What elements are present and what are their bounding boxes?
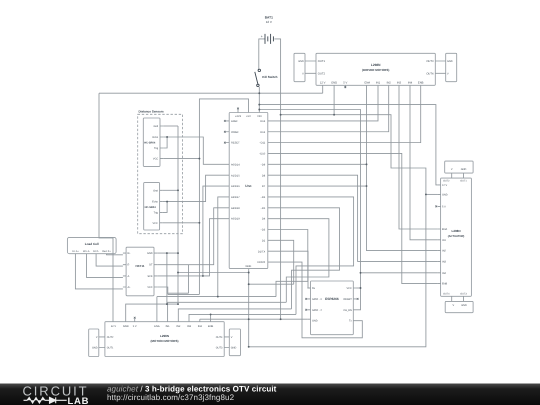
svg-text:BAT1: BAT1 [265,16,273,20]
wire D7 row tie [271,185,367,187]
svg-text:ENB: ENB [208,325,214,328]
battery BAT1 [265,34,273,44]
wire HX711 SCK to A5 [157,219,226,276]
svg-text:GND: GND [123,325,129,328]
wire actuator GND stub [426,193,438,195]
svg-text:HX711: HX711 [135,264,144,268]
ultrasonic sensor HC-SR04 #1 [143,118,160,166]
svg-text:RESET: RESET [343,298,352,301]
svg-text:VCC: VCC [347,287,352,290]
wire ESP CH_EN tie [357,288,361,310]
no-connect GPIO-0 [305,298,307,300]
svg-text:GND: GND [231,347,237,350]
wire D3 to motion ENA link [271,230,308,297]
wire sensor1 stubs [160,126,163,159]
svg-text:5 V: 5 V [442,206,446,209]
junction (178,272.5) [177,272,179,274]
svg-text:VIN: VIN [257,115,261,118]
svg-text:D1/TX: D1/TX [258,250,266,253]
junction (217.8,296.6) [217,296,219,298]
svg-text:A+: A+ [128,286,132,289]
wire driver IN4 riser to actuator IN1 [410,85,437,240]
svg-text:IN1: IN1 [166,325,171,328]
wire esp left stubs [307,288,310,319]
junction (259.3,93.2) [258,92,260,94]
wire D5 to motion IN2 link [271,208,340,309]
svg-text:Uno: Uno [245,184,251,188]
svg-text:Load Cell: Load Cell [85,242,99,246]
svg-text:GND: GND [442,194,448,197]
svg-text:~D6: ~D6 [260,196,265,199]
svg-text:Bl: E-: Bl: E- [93,250,99,253]
svg-text:OUT1: OUT1 [318,60,326,63]
svg-text:AREF: AREF [231,120,238,123]
wire HX711 DT to A4 [157,208,226,265]
junction (248.7,319.2) [248,318,250,320]
wire loadcell A+ wire [75,254,123,289]
wire battery - vertical [274,39,280,319]
svg-text:~D10: ~D10 [259,153,266,156]
footer bar [0,384,540,405]
svg-text:Red: E+: Red: E+ [102,250,111,253]
svg-text:E+: E+ [128,252,132,255]
IC U2 L298N (DRIVER MOTORS) [316,53,435,85]
wire sensor2 VCC row [163,222,200,224]
wire 12V rail B to actuator 12V [259,105,437,185]
wire hx left stubs [123,253,126,287]
wire loadcell A- wire [87,254,123,278]
wire sensor2 Gnd row [163,189,178,191]
svg-text:RESET: RESET [231,142,240,145]
svg-text:~D9: ~D9 [260,163,265,166]
svg-text:OUT2: OUT2 [318,73,326,76]
svg-text:D2: D2 [262,239,266,242]
svg-text:E-: E- [128,264,131,267]
wire D9 row tie [271,163,367,165]
wire actuator left stubs [437,185,440,284]
no-connect GPIO-2 [305,309,307,311]
wire GND drop v1 [166,253,168,304]
svg-text:IN4: IN4 [198,325,203,328]
svg-text:OUT3: OUT3 [216,347,223,350]
junction (360.5,272.8) [360,272,362,274]
svg-text:L298N: L298N [371,63,381,67]
wire driver ENB to D11 [271,85,421,142]
junction (366.5,186.06) [366,185,368,187]
IC U4 L298N (MOTION MOTORS) [105,322,224,357]
wire rail C riser to ESP VCC [259,110,360,289]
wire driver ENA riser to actuator IN2 [367,85,438,250]
wire motion ENA riser [156,297,158,322]
svg-text:HC-SR04: HC-SR04 [145,206,157,209]
junction (259.3,104.6) [258,104,260,106]
wire sensor1 VCC row [163,158,199,160]
svg-text:VCC: VCC [147,286,152,289]
svg-text:L298N: L298N [451,229,460,233]
svg-text:~D5: ~D5 [260,207,265,210]
junction (259.3,109.5) [258,109,260,111]
motion connector M5 [89,329,99,357]
svg-text:IN3: IN3 [442,261,447,264]
wire uno stubs [226,110,271,262]
junction (199.4,158.6) [198,158,200,160]
svg-text:SCK: SCK [147,275,152,278]
svg-text:D4: D4 [262,218,266,221]
svg-text:GND: GND [461,304,467,307]
amplifier HX711 U5 [126,247,154,296]
wire GND bottom loop to driver GND [249,115,426,347]
svg-text:IN2: IN2 [442,250,447,253]
svg-text:OUT2: OUT2 [443,180,450,183]
motor connector M2 [446,53,457,81]
svg-text:HC-SR04: HC-SR04 [144,142,156,145]
svg-text:OUT4: OUT4 [443,293,450,296]
junction (167.1,201.6) [166,201,168,203]
junction (210.6,314.4) [210,313,212,315]
wire loadcell E+ wire [107,254,123,255]
svg-text:ENB: ENB [442,283,447,286]
wire motion IN3 row riser [189,314,296,321]
wire hx right stubs [154,253,157,287]
svg-text:OUT4: OUT4 [216,336,223,339]
svg-text:A0/D14: A0/D14 [231,163,240,166]
group Distance Sensors (dashed) [138,114,183,233]
junction (202.9,275.9) [202,275,204,277]
junction (178,253.1) [177,252,179,254]
wire motion IN1 row riser [168,302,287,321]
junction (167.1,137) [166,136,168,138]
svg-text:D13: D13 [260,120,265,123]
junction (334.1,114.7) [333,114,335,116]
svg-text:CH_EN: CH_EN [343,309,352,312]
junction (166.9,253.1) [166,252,168,254]
ultrasonic sensor HC-SR04 #2 [144,183,160,230]
svg-text:VCC: VCC [153,158,158,161]
svg-text:GND: GND [92,347,98,350]
svg-text:IN3: IN3 [187,325,192,328]
actuator connector M3 [445,161,473,173]
wire sensor2 trig tie [163,202,167,213]
junction (248.7,284.2) [248,283,250,285]
svg-text:VCC: VCC [153,222,158,225]
junction (366.5,164.34) [366,163,368,165]
wire loadcell E- wire [96,254,123,266]
svg-text:Trig: Trig [154,211,159,214]
svg-text:OUT2: OUT2 [107,336,114,339]
wire 12V rail [99,85,323,93]
svg-text:ENB: ENB [418,82,424,85]
svg-text:Echo: Echo [152,201,158,204]
junction (280.6,114.7) [280,114,282,116]
svg-text:OUT3: OUT3 [460,293,467,296]
svg-text:IN4: IN4 [408,82,413,85]
svg-text:5 V: 5 V [343,82,347,85]
no-connect actuator 5V [435,206,437,208]
wire GND cross row [178,272,249,274]
wire actuator out stubs [452,173,464,301]
no-connect ESP RESET [357,298,359,300]
svg-text:D7: D7 [262,185,266,188]
junction (166.9,304.1) [166,303,168,305]
svg-text:ENA: ENA [442,228,447,231]
svg-text:A1/D15: A1/D15 [231,174,240,177]
svg-text:L298N: L298N [160,334,169,338]
logo resistor-diode squiggle [24,397,67,403]
svg-text:OUT4: OUT4 [426,73,434,76]
wire sensor1 trig tie [163,137,167,148]
svg-text:IN3: IN3 [397,82,402,85]
svg-text:OUT3: OUT3 [426,60,434,63]
wire motion IN2 row riser [178,309,291,322]
svg-text:OUT1: OUT1 [460,180,467,183]
wire actuator IN4 row [361,272,438,274]
motion connector M6 [229,329,240,356]
svg-text:DT: DT [149,264,153,267]
svg-text:GND: GND [147,252,153,255]
wire ESP VCC stub row [357,287,361,289]
svg-text:http://circuitlab.com/c37n3j3f: http://circuitlab.com/c37n3j3fng8u2 [107,393,235,402]
svg-text:~D3: ~D3 [260,229,265,232]
load cell LC1 [67,237,116,253]
wire switch to Uno VIN [258,87,260,113]
svg-text:Gnd: Gnd [153,125,158,128]
svg-text:Echo: Echo [152,136,158,139]
no-connect +3V3 [237,108,239,110]
svg-text:+5V: +5V [246,115,251,118]
svg-text:5 V: 5 V [133,325,137,328]
svg-text:Trig: Trig [154,147,159,150]
wire motion ENB riser [210,314,212,321]
wire D2 drop [271,240,294,284]
svg-text:ENA: ENA [365,82,371,85]
switch SW1 (Kill Switch) [255,69,261,86]
wire driver IN3 riser to actuator ENA [399,85,437,229]
svg-text:~D11: ~D11 [259,142,266,145]
junction (178,304.1) [177,303,179,305]
svg-text:D8: D8 [262,174,266,177]
svg-text:A-: A- [128,275,131,278]
junction (425.9,194.4) [425,193,427,195]
svg-text:A3/D17: A3/D17 [231,196,240,199]
wire motion out stubs [99,337,230,348]
svg-text:GND: GND [298,60,304,63]
svg-text:OUT1: OUT1 [107,347,114,350]
no-connect IOREF [224,131,226,133]
svg-text:LAB: LAB [68,396,90,405]
wifi module ESP8266 U6 [311,281,354,335]
svg-text:D0/RX: D0/RX [258,261,266,264]
junction (248.7,272.5) [248,272,250,274]
svg-text:(MOTION MOTORS): (MOTION MOTORS) [151,339,179,343]
wire motion IN4 to GND row [200,318,249,320]
svg-text:IN1: IN1 [442,239,447,242]
svg-text:IN2: IN2 [387,82,392,85]
svg-text:IN1: IN1 [376,82,381,85]
no-connect driver 5V [344,86,346,88]
wire HX711 GND row [157,252,178,254]
svg-text:A4/D18: A4/D18 [231,207,240,210]
svg-text:A5/D19: A5/D19 [231,218,240,221]
junction (178,190.3) [177,189,179,191]
wire motion ENA row [157,296,276,298]
wire HX711 VCC drop [157,287,168,294]
svg-text:IN2: IN2 [176,325,181,328]
svg-text:GPIO - 0: GPIO - 0 [312,298,322,301]
svg-text:IOREF: IOREF [231,131,239,134]
wire +5V to HX711 VCC row [168,293,200,295]
svg-text:Wh: A-: Wh: A- [83,250,90,253]
no-connect AREF [224,120,226,122]
wire motion IN4 riser [199,319,201,322]
svg-text:IN4: IN4 [442,272,447,275]
wire driver IN1 to D13 [271,85,378,121]
wire motion 5V stub [134,319,136,322]
svg-text:GND: GND [447,60,453,63]
actuator connector M4 [445,301,473,312]
Arduino Uno U1 [229,113,268,269]
wire esp right stubs [353,288,356,321]
wire driver GND drop [333,85,335,114]
wire D8 to actuator IN3 [271,175,437,261]
wire Uno GND drop [248,269,250,347]
svg-text:Distance Sensors: Distance Sensors [139,110,165,114]
svg-text:Gnd: Gnd [153,189,158,192]
wire battery + lead to switch [259,39,265,69]
wire A3 drop [218,197,226,297]
wire GND bus left vertical [177,126,179,304]
junction (360.5,288) [360,287,362,289]
wire sensor2 stubs [160,190,163,223]
wire D6 to motion IN3 link [271,197,354,314]
svg-text:GND: GND [246,265,252,268]
wire ESP GND row [249,318,308,320]
svg-text:(ACTUATOR): (ACTUATOR) [448,235,465,238]
wire +5V bus [199,99,248,295]
svg-text:ESP8266: ESP8266 [325,297,339,301]
svg-text:12 V: 12 V [442,184,447,187]
wire 12V left frame drop to motion 12V [99,93,113,322]
svg-text:GND: GND [331,82,337,85]
svg-text:A2/D16: A2/D16 [231,185,240,188]
wire driver OUT stubs [305,61,446,73]
svg-text:ENA: ENA [154,325,160,328]
wire DT staircase [168,265,189,294]
svg-text:12 V: 12 V [266,20,272,24]
wire driver IN2 to D12 [271,85,389,131]
svg-text:GND: GND [312,320,318,323]
svg-text:Gr: A+: Gr: A+ [72,250,79,253]
svg-text:+: + [261,34,263,38]
svg-text:Kill Switch: Kill Switch [262,75,277,79]
IC U3 L298N (ACTUATOR) [441,178,472,296]
motor connector M1 [294,53,305,81]
junction (248.7,346.8) [248,346,250,348]
wire sensor1 echo to A0 [163,137,226,164]
svg-text:GPIO - 2: GPIO - 2 [312,309,322,312]
wire D0/RX to ESP Tx loop [271,262,362,338]
wire D10 to actuator ENB [271,153,437,283]
wire motion GND riser [126,304,178,322]
wire A2 drop to SCK row [203,186,226,276]
wire row 284 link [249,283,294,285]
wire driver 5V stub [344,85,346,88]
svg-text:D12: D12 [260,131,265,134]
wire sensor1 Gnd row [163,125,178,127]
svg-text:12 V: 12 V [111,325,117,328]
wire D1/TX to ESP Rx [271,251,311,288]
wire D4 to motion IN1 link [271,219,329,303]
svg-text:(DRIVER MOTORS): (DRIVER MOTORS) [362,68,389,72]
svg-text:+3V3: +3V3 [235,115,242,118]
no-connect RESET [224,142,226,144]
svg-text:12 V: 12 V [320,82,326,85]
junction (280.6,319.2) [280,318,282,320]
no-connect motion 5V [134,317,136,319]
wire sensor2 echo to A1 [163,175,226,201]
svg-text:GND: GND [461,168,467,171]
junction (199.4,222.8) [198,222,200,224]
